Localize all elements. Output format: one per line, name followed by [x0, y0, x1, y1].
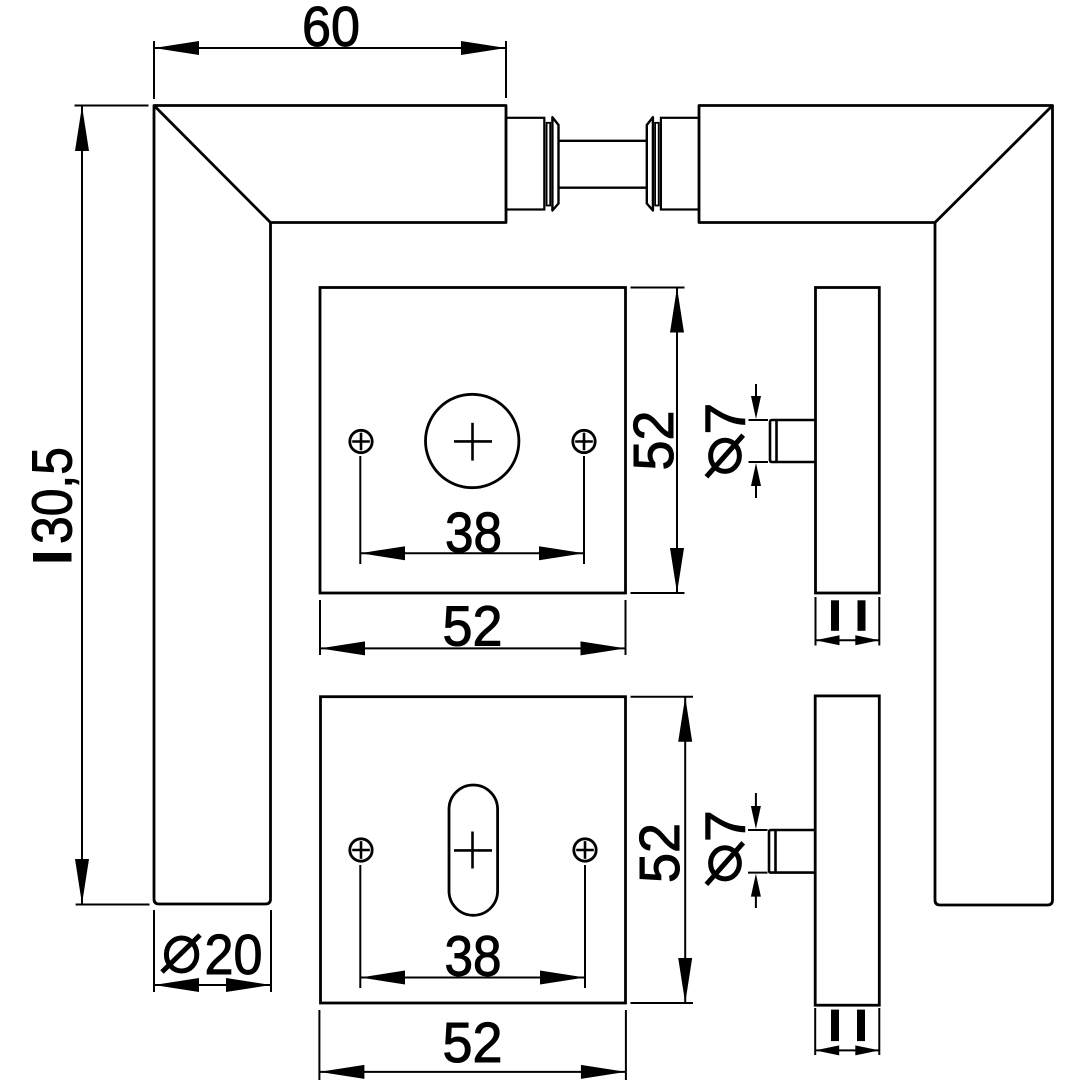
right spindle ring strip: [655, 123, 659, 206]
lower side view thickness arrow: [815, 1049, 879, 1051]
left lever handle outline: [154, 106, 506, 905]
upper bottom dimension 52 extension lines: [320, 600, 626, 655]
lower right dimension 52 line: [684, 697, 686, 1003]
svg-text:52: 52: [443, 1011, 503, 1075]
upper Ø7 label: [694, 403, 758, 477]
lower right dimension 52 arrowheads: [678, 697, 692, 742]
upper rosette handle hole circle: [426, 394, 519, 487]
svg-text:7: 7: [694, 810, 758, 842]
upper side view thickness marks: [831, 600, 839, 631]
svg-text:20: 20: [205, 923, 263, 987]
upper bottom dimension 52 arrowheads: [320, 641, 365, 655]
left spindle ring strip: [547, 123, 551, 206]
dimension 130,5 label: [21, 447, 85, 562]
upper side view thickness arrow: [816, 639, 880, 641]
svg-text:30,5: 30,5: [21, 447, 85, 544]
dimension 60 extension lines: [154, 41, 506, 99]
upper bottom dimension 52 line: [320, 647, 626, 649]
right spindle collar: [647, 117, 653, 210]
lower rosette left screw: [350, 839, 372, 861]
right handle neck: [661, 118, 699, 210]
lower side view stem: [769, 830, 815, 873]
lower bottom dimension 52 line: [319, 1071, 626, 1073]
upper side view stem: [770, 420, 816, 462]
right lever handle outline: [699, 106, 1053, 906]
lower dimension 38 line: [360, 977, 585, 979]
upper right dimension 52 extension ticks: [631, 288, 685, 594]
dimension 60 line: [154, 47, 506, 49]
lower Ø7 label: [694, 810, 758, 884]
lower rosette right screw: [574, 839, 596, 861]
lower right dimension 52 extension ticks: [631, 697, 694, 1003]
svg-text:7: 7: [694, 403, 758, 435]
upper Ø7 arrows: [755, 384, 757, 498]
dimension 130,5 arrowheads: [75, 106, 89, 151]
lower bottom dimension 52 extension lines: [319, 1010, 626, 1080]
dimension 130,5 extension ticks: [75, 106, 150, 905]
upper side view thickness extension lines: [816, 597, 880, 646]
upper rosette center cross: [454, 423, 492, 461]
upper right dimension 52 line: [676, 288, 678, 594]
lower dimension 38 arrowheads: [360, 971, 405, 985]
dimension Ø20 label: [162, 923, 263, 987]
lower side view thickness marks: [831, 1010, 839, 1042]
spindle bar: [559, 141, 647, 188]
upper rosette left screw: [350, 430, 372, 452]
dimension Ø20 extension lines: [154, 910, 271, 992]
upper Ø7 extension ticks: [749, 420, 769, 462]
lower side view plate: [815, 696, 879, 1005]
lower rosette center cross: [454, 832, 492, 869]
lower dimension 38 extension lines: [360, 865, 585, 988]
upper dimension 38 line: [360, 552, 584, 554]
svg-text:60: 60: [302, 0, 360, 59]
left spindle collar: [552, 117, 558, 210]
upper rosette right screw: [573, 430, 595, 452]
svg-text:52: 52: [628, 823, 692, 883]
svg-text:38: 38: [445, 925, 502, 989]
dimension 130,5 line: [81, 106, 83, 904]
lower rosette keyhole slot: [449, 785, 498, 915]
dimension 60 arrowheads: [154, 41, 199, 55]
lower Ø7 extension ticks: [748, 830, 768, 873]
lower Ø7 arrows: [755, 793, 757, 908]
lower rosette square plate: [321, 697, 626, 1003]
svg-text:52: 52: [443, 595, 503, 659]
upper side view plate: [816, 288, 880, 594]
upper right dimension 52 arrowheads: [670, 288, 684, 333]
upper rosette square plate: [320, 288, 626, 594]
svg-text:38: 38: [445, 501, 502, 565]
dimension Ø20 arrowheads: [154, 978, 199, 992]
lower bottom dimension 52 arrowheads: [319, 1065, 364, 1079]
lower side view thickness extension lines: [815, 1008, 879, 1055]
upper dimension 38 arrowheads: [360, 546, 405, 560]
upper dimension 38 extension lines: [360, 456, 584, 564]
dimension Ø20 line: [154, 984, 271, 986]
svg-text:52: 52: [622, 411, 686, 471]
left handle neck: [506, 118, 544, 210]
